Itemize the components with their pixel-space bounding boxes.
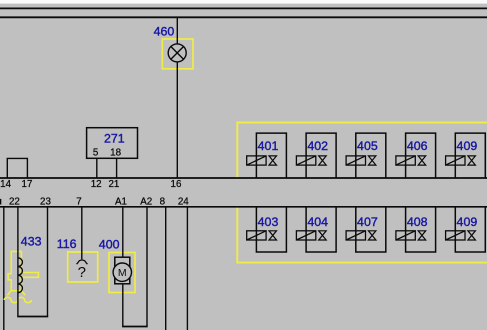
svg-text:406: 406 [407, 139, 428, 153]
relay 409 hourglass symbol [468, 231, 476, 240]
relay 406 box [406, 133, 436, 178]
relay 403 hourglass symbol [269, 231, 277, 240]
svg-text:24: 24 [178, 197, 189, 208]
wire: motor 400 bottom to loop bottom [122, 284, 124, 327]
svg-text:18: 18 [110, 147, 121, 158]
relay 409 hourglass symbol [468, 156, 476, 165]
svg-text:7: 7 [76, 197, 81, 208]
svg-text:404: 404 [307, 215, 328, 229]
relay 403 fuse symbol [247, 231, 266, 240]
relay 408 hourglass symbol [418, 231, 426, 240]
relay 402 fuse symbol [296, 156, 315, 165]
svg-text:5: 5 [93, 147, 99, 158]
svg-text:A1: A1 [115, 197, 127, 208]
motor 400 rotor circle [113, 263, 131, 281]
relay 404 box [306, 207, 336, 252]
svg-text:401: 401 [258, 139, 279, 153]
relay 405 box [356, 133, 386, 178]
wire: bus 2 (lower connector rail) [0, 206, 487, 208]
svg-text:8: 8 [160, 197, 166, 208]
svg-text:400: 400 [99, 237, 120, 251]
svg-text:A2: A2 [140, 197, 152, 208]
solenoid 433 highlighted ground squiggle [4, 297, 31, 302]
partial pin label at left edge (row 2) [0, 199, 1, 205]
jumper loop between pins 14 and 17 [7, 158, 27, 178]
top white margin strip [0, 0, 487, 4]
wire: pin A1 drop to motor 400 [122, 207, 124, 257]
svg-text:408: 408 [407, 215, 428, 229]
relay 402 hourglass symbol [319, 156, 327, 165]
svg-text:403: 403 [258, 215, 279, 229]
svg-text:405: 405 [357, 139, 378, 153]
relay 404 fuse symbol [296, 231, 315, 240]
wire: supply rail 2 (second horizontal) [0, 16, 487, 18]
relay 407 hourglass symbol [368, 231, 376, 240]
control unit box 271 [87, 128, 138, 159]
lamp 460 bulb symbol [168, 44, 186, 62]
motor 400 housing [115, 257, 130, 284]
svg-text:271: 271 [104, 131, 125, 145]
svg-text:460: 460 [154, 25, 175, 39]
relay 403 box [256, 207, 286, 252]
solenoid 433 coil windings [18, 258, 23, 293]
svg-text:23: 23 [40, 197, 51, 208]
relay 402 box [306, 133, 336, 178]
relay 401 hourglass symbol [269, 156, 277, 165]
svg-text:16: 16 [171, 179, 182, 190]
svg-text:?: ? [78, 264, 86, 281]
sensor 116 highlight box [68, 252, 98, 282]
wire: bus 1 (upper connector rail) [0, 177, 487, 179]
svg-text:407: 407 [357, 215, 378, 229]
relay 401 box [256, 133, 286, 178]
relay 401 fuse symbol [247, 156, 266, 165]
relay 404 hourglass symbol [319, 231, 327, 240]
relay group highlight rectangle (bottom row) [237, 206, 487, 262]
relay 409 fuse symbol [446, 231, 465, 240]
relay group highlight rectangle (top row) [237, 123, 487, 179]
relay 409 fuse symbol [446, 156, 465, 165]
wire: lamp 460 down to bus1 pin 16 [176, 62, 178, 178]
lamp 460 highlight box [162, 39, 193, 69]
svg-text:17: 17 [22, 179, 33, 190]
svg-text:12: 12 [91, 179, 102, 190]
wire: pin 22 drop through solenoid 433 [17, 207, 19, 317]
wire: 271 pin 5 stub to bus1 [96, 158, 98, 178]
relay 408 box [406, 207, 436, 252]
relay 405 fuse symbol [346, 156, 365, 165]
wire: pin 7 drop to sensor 116 [81, 207, 83, 259]
wire: leftmost drop from bus2 to bottom edge [3, 207, 5, 330]
relay 407 box [356, 207, 386, 252]
relay 405 hourglass symbol [368, 156, 376, 165]
motor 400 highlight box [109, 253, 135, 293]
svg-text:116: 116 [57, 237, 77, 251]
solenoid 433 highlighted body [8, 251, 38, 290]
wire: supply rail 1 (top horizontal) [0, 7, 487, 9]
relay 406 hourglass symbol [418, 156, 426, 165]
svg-text:14: 14 [0, 179, 11, 190]
svg-text:M: M [118, 267, 127, 279]
wire: pin 23 drop [47, 207, 49, 317]
svg-text:409: 409 [457, 139, 478, 153]
wire: pin 24 drop to bottom edge [186, 207, 188, 330]
solenoid 433 highlighted skirt [7, 291, 25, 296]
wire: bottom link of 22-23 loop [17, 316, 48, 318]
relay 409 box [455, 133, 485, 178]
relay 409 box (bottom row) [455, 207, 485, 252]
wire: pin A2 drop [146, 207, 148, 327]
svg-text:409: 409 [457, 215, 478, 229]
svg-text:22: 22 [9, 197, 20, 208]
wire: pin 8 drop to bottom edge [165, 207, 167, 330]
svg-text:402: 402 [307, 139, 328, 153]
svg-text:433: 433 [21, 235, 42, 249]
sensor 116 terminal arc [77, 260, 88, 264]
wire: rail2 down to lamp 460 [176, 17, 178, 44]
relay 407 fuse symbol [346, 231, 365, 240]
wire: bottom link of A1-A2 loop [122, 326, 148, 328]
relay 406 fuse symbol [396, 156, 415, 165]
relay 408 fuse symbol [396, 231, 415, 240]
wire: 271 pin 18 stub to bus1 [116, 158, 118, 178]
svg-text:21: 21 [108, 179, 119, 190]
